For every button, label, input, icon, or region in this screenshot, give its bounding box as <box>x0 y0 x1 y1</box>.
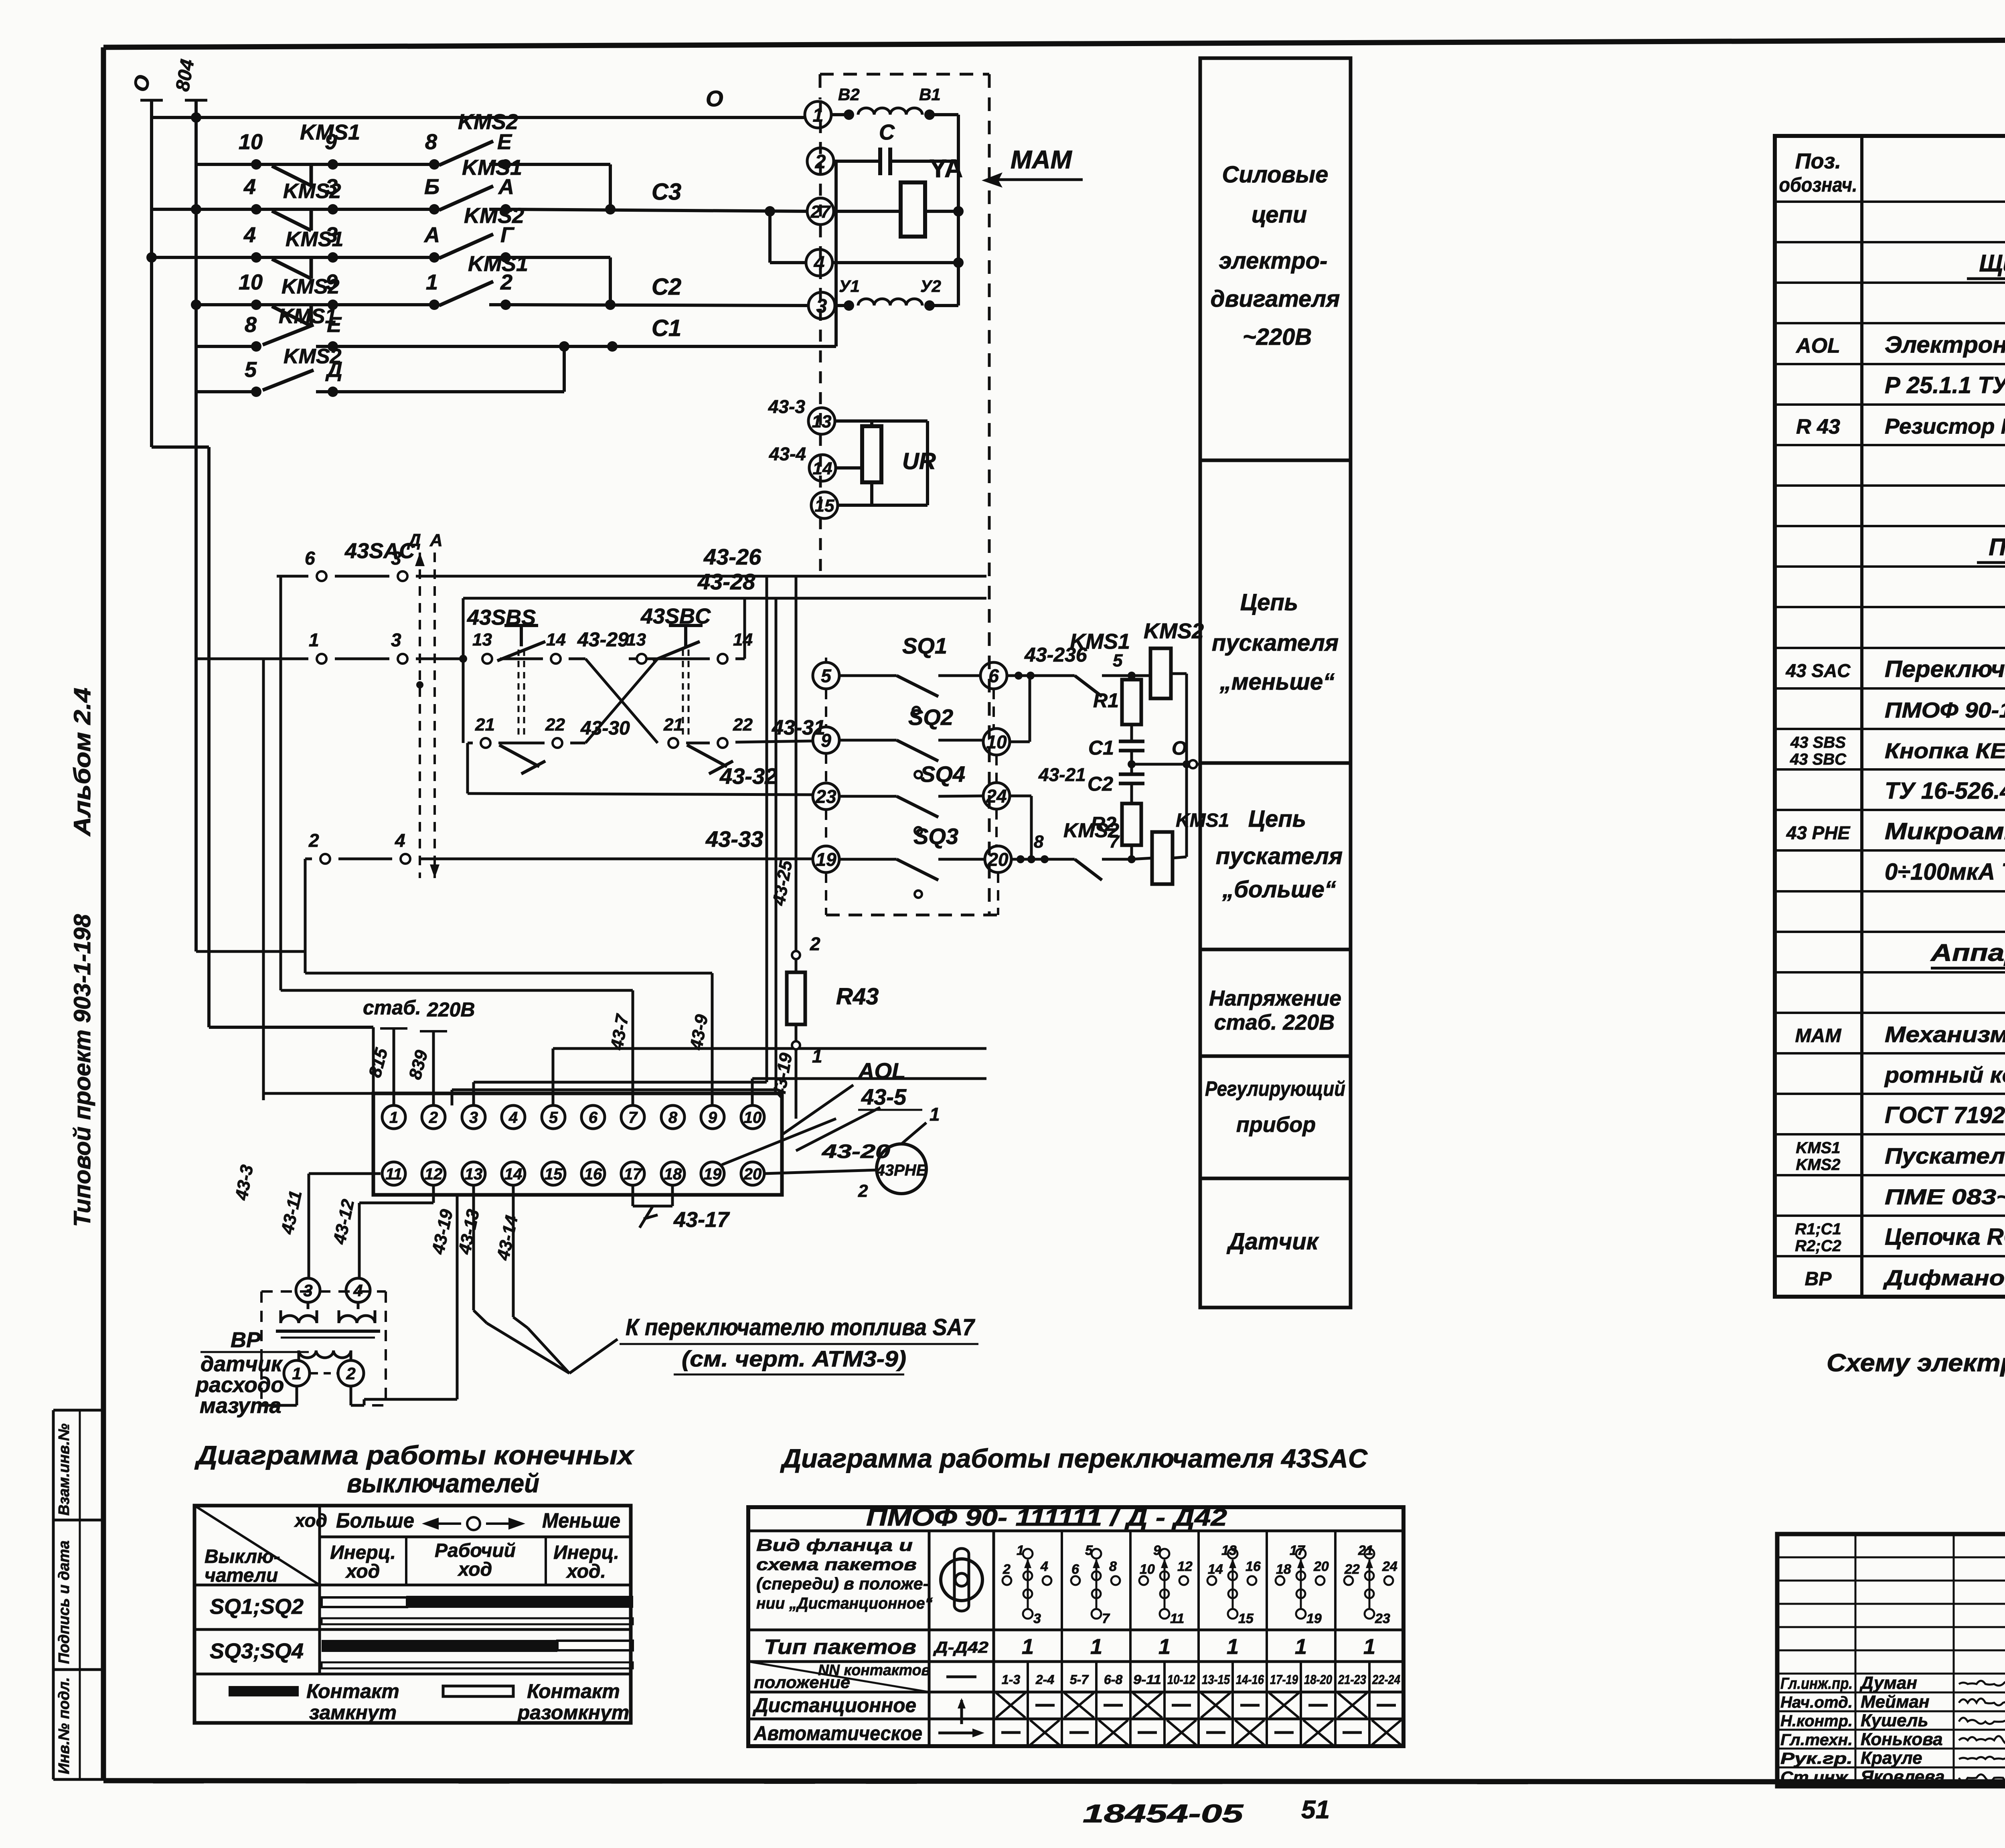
terminal 15 <box>811 492 838 518</box>
sensor terminal 1 <box>284 1360 310 1386</box>
svg-text:R1;С1: R1;С1 <box>1795 1221 1841 1238</box>
svg-text:R2;С2: R2;С2 <box>1795 1237 1841 1255</box>
svg-text:8: 8 <box>1109 1559 1117 1574</box>
bus O vertical <box>140 100 163 447</box>
svg-text:Типовой проект 903-1-198: Типовой проект 903-1-198 <box>69 914 95 1227</box>
43SAC table header ПМОФ <box>866 1504 1227 1531</box>
svg-text:43-3: 43-3 <box>768 396 805 417</box>
svg-text:2: 2 <box>429 1109 438 1126</box>
svg-text:19: 19 <box>1306 1611 1322 1626</box>
row R43 <box>1796 415 2005 439</box>
svg-text:Схему электрического питани: Схему электрического питания см. черт . … <box>1827 1349 2005 1377</box>
svg-text:Н.контр.: Н.контр. <box>1780 1712 1853 1730</box>
svg-text:43-13: 43-13 <box>455 1208 484 1256</box>
wire 43-25 vertical <box>795 576 798 950</box>
zone label Напряжение стаб. 220В <box>1209 986 1341 1034</box>
svg-text:чатели: чатели <box>205 1565 278 1586</box>
svg-text:12: 12 <box>1177 1559 1193 1574</box>
svg-text:ход: ход <box>294 1510 327 1531</box>
svg-text:„больше“: „больше“ <box>1222 876 1336 903</box>
svg-text:6: 6 <box>988 666 999 686</box>
strip terminal 1 <box>382 1105 405 1129</box>
svg-text:AOL: AOL <box>857 1058 905 1083</box>
diagram header texts <box>205 1509 620 1586</box>
svg-text:Р 25.1.1 ТУ 25.02.1948-: Р 25.1.1 ТУ 25.02.1948-76 <box>1885 372 2005 398</box>
svg-text:С3: С3 <box>652 179 681 205</box>
svg-text:Цепь: Цепь <box>1248 806 1306 832</box>
svg-text:Датчик: Датчик <box>1226 1229 1319 1255</box>
svg-text:ПМЕ 083~220В ОСТ 16.0536.001: ПМЕ 083~220В ОСТ 16.0536.001-72 <box>1885 1185 2005 1209</box>
svg-text:23: 23 <box>1375 1611 1390 1626</box>
svg-text:SQ1;SQ2: SQ1;SQ2 <box>210 1595 304 1619</box>
svg-text:1: 1 <box>426 270 438 294</box>
section Аппаратура по месту <box>1930 939 2005 968</box>
svg-text:0÷100мкА ТУ 25.04- 1123-73: 0÷100мкА ТУ 25.04- 1123-73 <box>1885 859 2005 885</box>
wire 43-28 <box>463 598 986 743</box>
svg-text:Кушель: Кушель <box>1861 1711 1928 1731</box>
contact row2 KMS2 4-3 / KMS1 Б-А wire C3 <box>152 186 808 231</box>
terminal 9 <box>813 727 839 753</box>
svg-text:4: 4 <box>1040 1559 1048 1574</box>
limit switch SQ2 <box>839 740 983 778</box>
strip terminal 8 <box>661 1105 685 1129</box>
strip terminal 13 <box>462 1162 485 1185</box>
stator winding B2-B1 <box>831 108 958 161</box>
svg-text:пускателя: пускателя <box>1212 630 1339 656</box>
svg-text:12: 12 <box>425 1165 443 1183</box>
svg-text:6: 6 <box>305 548 315 569</box>
svg-text:4: 4 <box>353 1281 363 1300</box>
svg-text:21: 21 <box>475 715 495 735</box>
svg-text:43-5: 43-5 <box>861 1084 907 1109</box>
svg-text:9: 9 <box>1153 1543 1161 1558</box>
svg-text:МАМ: МАМ <box>1011 145 1073 174</box>
labels 43SAC row1 <box>305 539 761 569</box>
terminal 13 <box>808 408 835 434</box>
row NN контактов положение <box>754 1662 1400 1692</box>
terminal 23 <box>813 783 839 810</box>
svg-text:Е: Е <box>327 313 342 337</box>
svg-text:4: 4 <box>508 1109 518 1126</box>
svg-text:3: 3 <box>303 1281 312 1300</box>
svg-text:8: 8 <box>668 1109 678 1126</box>
limit switch SQ3 <box>839 859 985 898</box>
svg-text:18: 18 <box>1276 1562 1291 1577</box>
svg-text:ВР: ВР <box>1805 1269 1832 1290</box>
svg-text:ПМОФ 90-111111/Д-Д42 ТУ 16-526: ПМОФ 90-111111/Д-Д42 ТУ 16-526.128-75 <box>1885 698 2005 723</box>
svg-text:„меньше“: „меньше“ <box>1219 669 1335 695</box>
svg-text:стаб.: стаб. <box>363 996 421 1019</box>
row 0-100мкА <box>1885 859 2005 885</box>
svg-text:3: 3 <box>469 1109 478 1126</box>
svg-text:В1: В1 <box>919 85 941 104</box>
svg-text:О: О <box>129 73 155 94</box>
terminal feed jog <box>765 206 806 263</box>
svg-text:10: 10 <box>744 1109 762 1126</box>
svg-text:3: 3 <box>1033 1611 1041 1626</box>
wire terminal10 feed <box>752 1079 986 1105</box>
svg-text:С: С <box>879 120 895 144</box>
svg-text:KMS2: KMS2 <box>1144 619 1204 643</box>
left margin stamp boxes <box>53 1410 103 1779</box>
strip terminal 7 <box>621 1105 644 1129</box>
contact row4 KMS2 10-9 / KMS1 1-2 wire C2 <box>191 281 808 326</box>
svg-text:4: 4 <box>395 830 405 851</box>
svg-text:обознач.: обознач. <box>1779 174 1857 196</box>
terminal 27 <box>807 198 834 225</box>
svg-text:43-3: 43-3 <box>231 1163 257 1202</box>
wire bus to 43SAC row1 vertical <box>279 576 282 990</box>
svg-text:5: 5 <box>1113 651 1123 670</box>
43SAC diagram table grid <box>748 1507 1403 1746</box>
svg-text:43-20: 43-20 <box>822 1141 891 1162</box>
svg-text:22: 22 <box>1344 1562 1360 1577</box>
pointer AOL 43-5 <box>782 1085 880 1151</box>
svg-text:SQ4: SQ4 <box>920 761 965 787</box>
svg-text:ВР: ВР <box>231 1328 261 1352</box>
pin labels 8 7 <box>1034 832 1120 852</box>
title Диаграмма работы конечных выключателей <box>194 1440 635 1498</box>
svg-text:43-26: 43-26 <box>703 544 761 569</box>
labels 21 22 43-30 <box>475 715 630 739</box>
svg-text:Рук.гр.: Рук.гр. <box>1780 1750 1853 1767</box>
svg-text:17-19: 17-19 <box>1270 1672 1298 1687</box>
svg-text:18454-05: 18454-05 <box>1083 1799 1244 1828</box>
svg-text:мазута: мазута <box>200 1394 282 1418</box>
wire left drop to strip <box>263 659 373 1093</box>
row P25.1.1 <box>1885 372 2005 398</box>
wire 43-12 to sensor <box>359 1186 433 1278</box>
svg-text:Конькова: Конькова <box>1861 1729 1943 1749</box>
zone label Цепь пускателя больше <box>1216 806 1343 903</box>
svg-text:Щит: Щит <box>1979 250 2005 277</box>
wire 43-28 drop <box>452 598 776 1105</box>
wire harness 43-7 run <box>281 990 633 1105</box>
legend open contact <box>443 1680 629 1724</box>
resistor R2 <box>1122 804 1141 859</box>
svg-text:Яковлева: Яковлева <box>1860 1767 1945 1787</box>
wire harness 43-9 run <box>305 973 712 1105</box>
contact row 21-22 left <box>468 738 562 774</box>
svg-text:ротный контактный МЗО-¹⁰⁰/₂₅: ротный контактный МЗО-¹⁰⁰/₂₅ -0,25Р <box>1884 1062 2005 1087</box>
flange symbol <box>941 1548 982 1611</box>
svg-text:Инв.№ подл.: Инв.№ подл. <box>56 1677 73 1774</box>
svg-text:23: 23 <box>815 786 836 807</box>
svg-text:(см. черт. АТМ3-9): (см. черт. АТМ3-9) <box>682 1346 906 1371</box>
svg-text:9-11: 9-11 <box>1133 1672 1161 1687</box>
svg-text:(спереди) в положе-: (спереди) в положе- <box>756 1574 929 1593</box>
svg-text:19: 19 <box>704 1165 722 1183</box>
zone label Силовые цепи электродвигателя ~220В <box>1211 162 1340 350</box>
svg-text:13: 13 <box>626 630 646 650</box>
svg-text:Электронный регулирующий при: Электронный регулирующий прибор <box>1885 332 2005 358</box>
signature squiggles <box>1959 1681 2005 1782</box>
43SAC mechanical dashed links <box>415 553 439 878</box>
limit switch SQ1 <box>839 676 980 714</box>
svg-text:нии „Дистанционное“: нии „Дистанционное“ <box>756 1595 933 1612</box>
labels row6 <box>245 345 342 382</box>
svg-text:Дистанционное: Дистанционное <box>752 1694 916 1716</box>
wire bus2 jog to 43SAC row3 <box>196 859 305 973</box>
svg-text:6-8: 6-8 <box>1104 1672 1122 1687</box>
svg-text:Д: Д <box>325 358 342 382</box>
terminal 14 <box>809 455 836 481</box>
svg-text:разомкнут: разомкнут <box>517 1701 630 1724</box>
MAM enclosure dashed box <box>820 74 989 915</box>
svg-text:10: 10 <box>1140 1562 1155 1577</box>
svg-text:24: 24 <box>1382 1559 1397 1574</box>
svg-text:13: 13 <box>1221 1543 1237 1558</box>
contact row1 KMS1 10-9 / KMS2 8-E <box>196 141 610 209</box>
SQ dashed link columns <box>826 658 998 915</box>
svg-text:С1: С1 <box>652 315 681 341</box>
svg-text:43-14: 43-14 <box>493 1214 522 1262</box>
row ротный <box>1884 1062 2005 1087</box>
svg-text:ход: ход <box>345 1561 380 1582</box>
svg-text:С2: С2 <box>1088 773 1113 795</box>
wire 43-26 drop <box>474 576 767 1105</box>
wire 43-4 terminal 14 <box>836 466 863 470</box>
wire O to terminal 1 <box>152 112 805 123</box>
svg-text:4: 4 <box>243 223 256 247</box>
wire 43-236 and contact KMS1 <box>1007 672 1150 696</box>
svg-text:18-20: 18-20 <box>1304 1672 1332 1687</box>
row Автоматическое <box>753 1720 1401 1745</box>
svg-text:43-28: 43-28 <box>697 569 755 594</box>
svg-text:2: 2 <box>308 830 319 851</box>
terminal 4 <box>806 249 832 276</box>
svg-text:20: 20 <box>743 1165 762 1183</box>
svg-text:3: 3 <box>326 223 338 247</box>
svg-text:К переключателю топлива SA7: К переключателю топлива SA7 <box>626 1314 976 1340</box>
winding labels B2 B1 <box>838 85 941 104</box>
flange view label <box>756 1536 933 1612</box>
terminal 1 <box>805 101 831 128</box>
svg-text:804: 804 <box>172 58 198 93</box>
svg-text:14: 14 <box>733 630 753 650</box>
svg-text:А: А <box>423 223 440 247</box>
svg-text:43-7: 43-7 <box>607 1012 632 1052</box>
bracket 43-17 <box>633 1186 672 1228</box>
svg-text:Силовые: Силовые <box>1222 162 1329 188</box>
svg-text:839: 839 <box>405 1048 431 1081</box>
strip terminal 2 <box>422 1105 445 1129</box>
svg-text:43-30: 43-30 <box>580 718 630 739</box>
svg-text:С1: С1 <box>1088 737 1114 759</box>
parts table grid <box>1775 136 2005 1297</box>
svg-text:ТУ 16-526.407-76: ТУ 16-526.407-76 <box>1885 778 2005 804</box>
terminal 3 <box>808 292 835 319</box>
svg-text:О: О <box>1172 738 1187 759</box>
row R1C1 R2C2 <box>1795 1221 2005 1255</box>
svg-text:Пульт: Пульт <box>1989 534 2005 561</box>
svg-text:KMS1: KMS1 <box>1070 629 1130 654</box>
svg-text:1: 1 <box>1363 1635 1375 1659</box>
svg-text:Инерц.: Инерц. <box>553 1542 619 1563</box>
svg-text:Ст.инж.: Ст.инж. <box>1780 1769 1853 1786</box>
svg-text:Дифманометр ДМТУ 25.05.1489-7: Дифманометр ДМТУ 25.05.1489-73 <box>1883 1266 2005 1290</box>
signature table grid <box>1777 1534 2005 1786</box>
svg-text:Поз.: Поз. <box>1795 149 1841 173</box>
svg-text:20: 20 <box>1313 1559 1329 1574</box>
svg-text:Крауле: Крауле <box>1861 1748 1922 1768</box>
svg-text:815: 815 <box>365 1046 391 1079</box>
contactor coil KMS1 <box>1132 832 1187 884</box>
svg-text:KMS2: KMS2 <box>464 204 524 228</box>
svg-text:расходо: расходо <box>195 1373 284 1397</box>
svg-text:43-17: 43-17 <box>673 1208 730 1232</box>
row AOL <box>1795 332 2005 358</box>
wire terminal 19 slant <box>722 1119 836 1165</box>
svg-text:14-16: 14-16 <box>1236 1672 1264 1687</box>
svg-text:43 SBS: 43 SBS <box>1790 734 1846 751</box>
node 1 open <box>792 1041 800 1049</box>
svg-text:9: 9 <box>325 130 337 154</box>
function zone column box <box>1200 58 1351 1308</box>
svg-text:11: 11 <box>1170 1611 1184 1626</box>
winding labels У1 У2 <box>839 277 941 296</box>
svg-text:15: 15 <box>1238 1611 1254 1626</box>
svg-text:21-23: 21-23 <box>1338 1672 1366 1687</box>
svg-text:22: 22 <box>545 715 565 735</box>
C1 riser to terminal 2 <box>834 161 836 346</box>
sensor BP dashed box <box>261 1291 386 1405</box>
svg-text:Больше: Больше <box>336 1509 414 1532</box>
row ГОСТ 7192 <box>1885 1102 2005 1128</box>
button 43SBS <box>482 625 561 738</box>
svg-text:Меньше: Меньше <box>542 1509 620 1532</box>
strip terminal 20 <box>741 1162 764 1185</box>
svg-text:Инерц.: Инерц. <box>330 1542 396 1563</box>
parts table headers <box>1779 149 2005 196</box>
svg-text:Вид фланца и: Вид фланца и <box>756 1536 913 1555</box>
wire 43-14 <box>513 1186 528 1328</box>
contact row3 KMS1 4-3 / KMS2 А-Г <box>146 234 610 305</box>
svg-text:Аппаратура по месту: Аппаратура по месту <box>1930 939 2005 966</box>
svg-text:5-7: 5-7 <box>1070 1672 1089 1687</box>
wire terminal5 feed <box>553 1048 986 1105</box>
strip terminal 17 <box>621 1162 644 1185</box>
svg-text:Механизм электрический одноо: Механизм электрический однообо- <box>1885 1022 2005 1047</box>
svg-text:Диаграмма работы конечных: Диаграмма работы конечных <box>194 1440 635 1470</box>
svg-text:5: 5 <box>821 666 832 686</box>
svg-text:ход.: ход. <box>565 1561 606 1582</box>
svg-text:13: 13 <box>472 630 492 650</box>
svg-text:SQ3;SQ4: SQ3;SQ4 <box>210 1639 304 1663</box>
svg-text:14: 14 <box>1208 1562 1223 1577</box>
row KMS1 KMS2 <box>1796 1139 2005 1174</box>
wire 43-21 from terminal 24 <box>1010 796 1035 863</box>
strip terminal 14 <box>502 1162 525 1185</box>
svg-text:Взам.инв.№: Взам.инв.№ <box>56 1423 73 1516</box>
contact KMS2 lower <box>1011 855 1136 880</box>
wire 43PHE top <box>901 1123 926 1144</box>
MAM pointer <box>982 172 1083 188</box>
button label 43SBC <box>626 604 753 650</box>
svg-text:43-25: 43-25 <box>769 859 796 907</box>
svg-text:прибор: прибор <box>1236 1113 1316 1137</box>
svg-text:Тип пакетов: Тип пакетов <box>764 1635 916 1659</box>
svg-text:Д-Д42: Д-Д42 <box>933 1639 988 1656</box>
svg-text:1: 1 <box>1158 1635 1171 1659</box>
svg-text:43-4: 43-4 <box>769 443 806 464</box>
signature rows text <box>1780 1673 1945 1787</box>
resistor UR <box>862 421 881 505</box>
svg-text:А: А <box>429 530 443 550</box>
svg-text:1: 1 <box>1022 1635 1034 1659</box>
capacitor C <box>834 148 958 175</box>
svg-text:двигателя: двигателя <box>1211 286 1340 312</box>
wire R43 down <box>795 1049 798 1119</box>
wire 43-3 terminal 13 <box>835 421 928 505</box>
svg-text:UR: UR <box>902 448 936 474</box>
terminal 19 <box>813 846 839 872</box>
svg-text:24: 24 <box>986 786 1007 807</box>
svg-text:цепи: цепи <box>1252 202 1307 228</box>
terminal 24 <box>983 783 1010 809</box>
terminal dashed link line <box>819 100 822 577</box>
svg-text:220В: 220В <box>427 998 475 1021</box>
svg-text:Цепь: Цепь <box>1240 589 1298 615</box>
svg-text:Рабочий: Рабочий <box>435 1540 516 1561</box>
strip terminal 4 <box>502 1105 525 1129</box>
svg-text:17: 17 <box>624 1165 642 1183</box>
svg-text:Мейман: Мейман <box>1861 1692 1930 1712</box>
svg-text:3: 3 <box>391 548 401 569</box>
row 43РНЕ <box>1786 818 2005 844</box>
strip terminal 12 <box>422 1162 445 1185</box>
sensor terminal 4 <box>346 1278 370 1302</box>
svg-text:43SAC: 43SAC <box>344 539 415 563</box>
svg-text:18: 18 <box>664 1165 682 1183</box>
row МАМ <box>1795 1022 2005 1047</box>
svg-text:16: 16 <box>1246 1559 1261 1574</box>
row Тип пакетов <box>764 1635 1375 1659</box>
svg-text:15: 15 <box>815 496 834 516</box>
svg-text:15: 15 <box>545 1165 563 1183</box>
svg-text:Подпись и дата: Подпись и дата <box>56 1540 73 1664</box>
row SQ1 SQ2 <box>210 1595 633 1624</box>
strip terminal 5 <box>542 1105 565 1129</box>
svg-text:14: 14 <box>504 1165 523 1183</box>
switch 43SAC pole 1-3 wire <box>196 654 467 664</box>
svg-text:43-12: 43-12 <box>330 1197 358 1246</box>
svg-text:Микроамперметр М4206 шкала: Микроамперметр М4206 шкала <box>1885 818 2005 844</box>
zone label Цепь пускателя меньше <box>1212 589 1339 695</box>
labels row2 <box>243 156 681 205</box>
switch 43SAC pole 6-3 wire 43-26 <box>277 571 986 581</box>
svg-text:KMS1: KMS1 <box>1796 1139 1840 1157</box>
label 43-5 <box>858 1084 922 1110</box>
wire 43-3 left drop <box>262 1093 265 1100</box>
svg-text:2-4: 2-4 <box>1035 1672 1054 1687</box>
svg-text:Думан: Думан <box>1859 1673 1917 1693</box>
svg-text:стаб. 220В: стаб. 220В <box>1214 1010 1335 1034</box>
row ВР <box>1805 1266 2005 1290</box>
terminal 5 <box>813 662 839 689</box>
svg-text:1: 1 <box>1295 1635 1307 1659</box>
sensor transformer <box>276 1302 380 1360</box>
sensor label BP <box>195 1328 309 1418</box>
terminal 6 <box>980 662 1007 689</box>
capacitor C2 <box>1119 764 1144 804</box>
zone label Регулирующий прибор <box>1205 1077 1345 1137</box>
svg-text:43-9: 43-9 <box>686 1013 712 1052</box>
svg-text:1: 1 <box>389 1109 398 1126</box>
svg-text:5: 5 <box>549 1109 558 1126</box>
svg-text:электро-: электро- <box>1219 248 1328 274</box>
wire 43-19 long <box>364 1195 457 1399</box>
